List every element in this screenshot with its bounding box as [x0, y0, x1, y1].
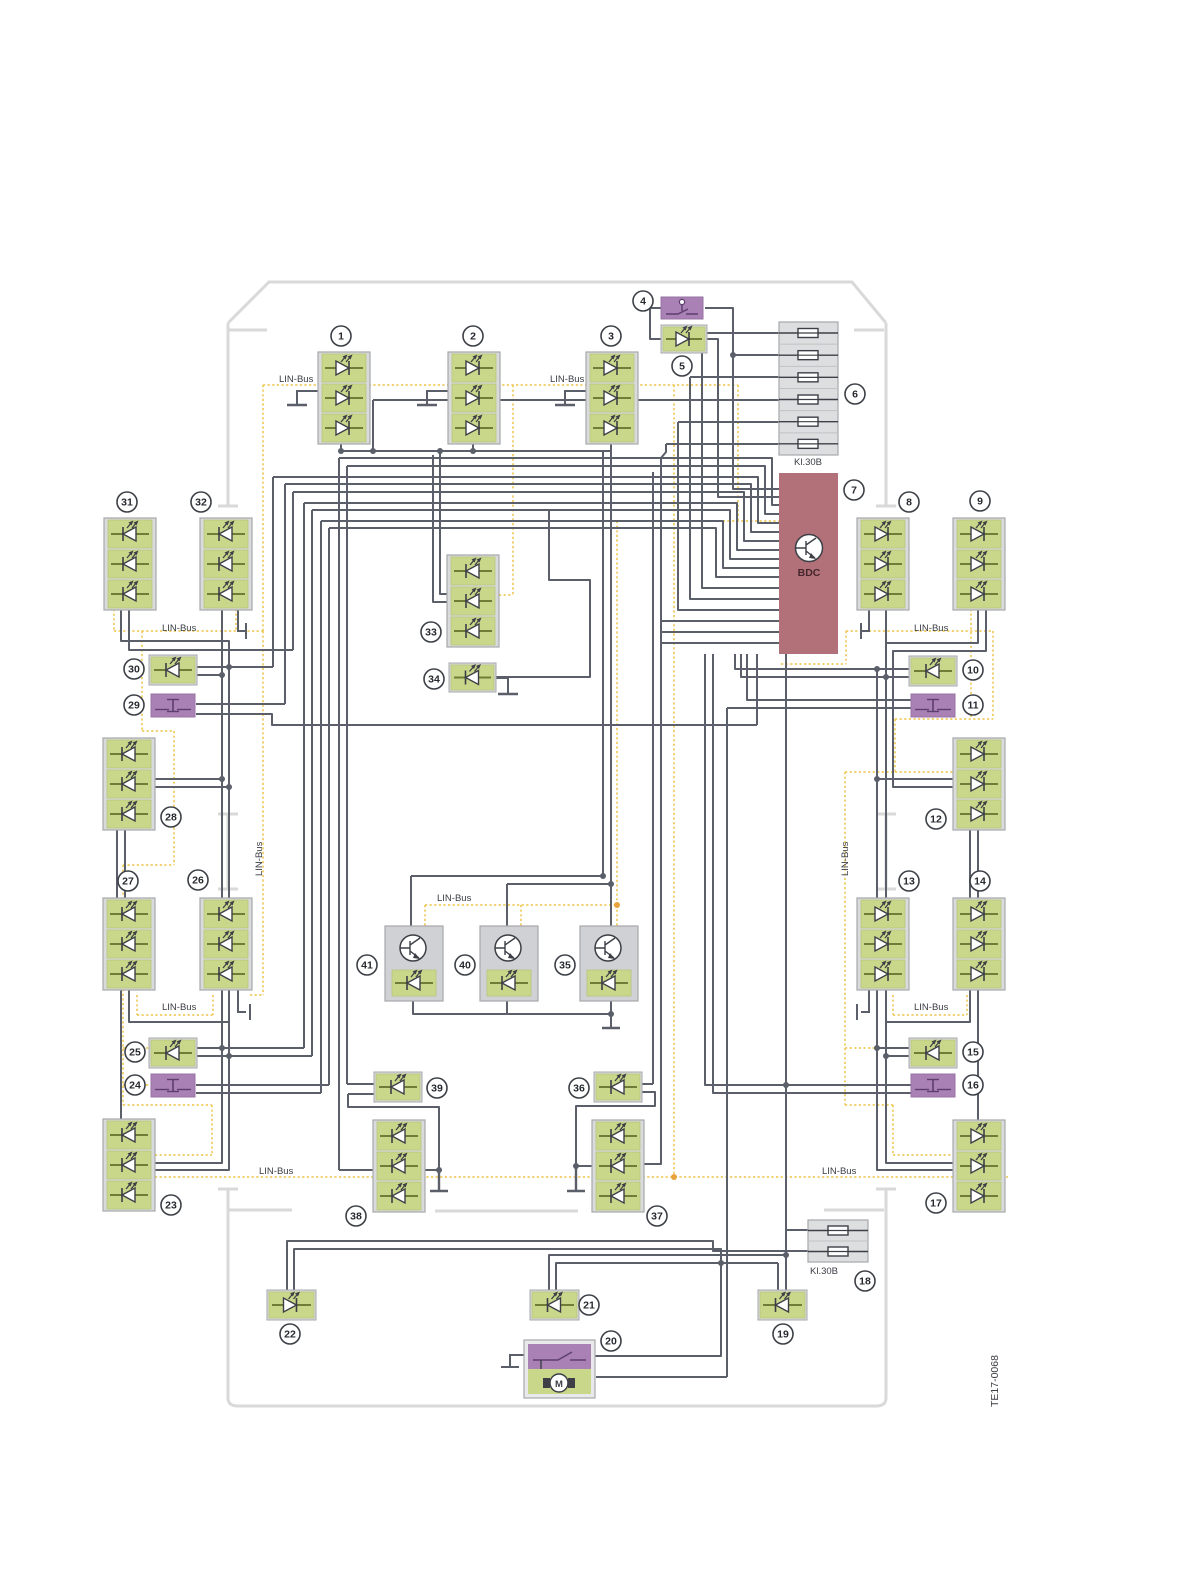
svg-text:27: 27 — [122, 876, 134, 888]
wire riser x757 from BDC bottom — [756, 654, 758, 725]
wire lamp31 to riser x229 — [121, 609, 229, 898]
wire fuse18 row1 stub — [786, 1229, 808, 1231]
lamp unit 8 (3 LEDs) — [857, 518, 909, 610]
label circle 5 — [672, 356, 692, 376]
svg-text:LIN-Bus: LIN-Bus — [822, 1166, 857, 1177]
wire lamp8 riser x886 — [885, 608, 887, 898]
wire switch24 line1 — [196, 1084, 329, 1086]
switch 4 (hazard) — [661, 297, 703, 319]
label circle 22 — [280, 1324, 300, 1344]
svg-text:8: 8 — [906, 497, 912, 509]
wire riser x304 — [303, 503, 305, 1048]
svg-text:7: 7 — [851, 485, 857, 497]
ground driver modules — [602, 1027, 620, 1029]
label circle 21 — [579, 1295, 599, 1315]
svg-text:14: 14 — [974, 876, 986, 888]
LIN-Bus stubs from units 31 32 — [114, 609, 236, 631]
svg-text:28: 28 — [165, 812, 177, 824]
wire lamp3 down — [610, 444, 612, 451]
svg-text:10: 10 — [967, 665, 979, 677]
wire bus line y528 to BDC pin y577 — [329, 528, 779, 577]
wire bus line y458 to BDC pin y505 — [339, 458, 779, 505]
label circle 29 — [124, 695, 144, 715]
lamp unit 14 (3 LEDs) — [953, 898, 1005, 990]
ground lamp unit 2 — [427, 391, 448, 405]
lamp 22 — [267, 1290, 316, 1320]
wire bus line y521 to BDC pin y568 — [321, 521, 779, 568]
wire into module 41 — [410, 876, 412, 926]
junction lamp28 b — [226, 784, 232, 790]
svg-text:9: 9 — [977, 496, 983, 508]
junction lamp1 — [338, 448, 344, 454]
fuse box 6 Kl.30B — [779, 322, 838, 455]
svg-text:LIN-Bus: LIN-Bus — [259, 1166, 294, 1177]
wire feed modules 40 35 vertical — [610, 451, 612, 884]
lamp 19 — [758, 1290, 807, 1320]
wire feed module 40 horizontal — [507, 883, 611, 885]
LIN-Bus junction dot bottom — [671, 1174, 677, 1180]
car outline right door divider — [876, 814, 896, 889]
wire lamp5 output to BDC — [705, 339, 779, 497]
wire fuse6 row4 long — [373, 399, 808, 401]
ground lamp unit 3 — [565, 391, 586, 405]
wire lamp9 out2 to lamp12 line2 — [893, 608, 986, 787]
ground lamp 34 — [494, 678, 508, 694]
lamp 36 — [594, 1072, 642, 1102]
LIN-Bus drop right of switch 4 — [737, 385, 739, 521]
ground lamp unit 26 — [238, 989, 250, 1020]
wire switch11 line2 — [727, 707, 911, 709]
label circle 13 — [899, 871, 919, 891]
wire switch24 line2 — [196, 1092, 321, 1094]
junction module40 feed — [608, 881, 614, 887]
label circle 19 — [773, 1324, 793, 1344]
car outline left door divider — [218, 814, 238, 889]
driver module 41 — [385, 926, 443, 1001]
label circle 2 — [463, 326, 483, 346]
wire to unit 38 left — [339, 1169, 374, 1171]
wire lamp27 to riser — [129, 989, 229, 1022]
LIN-Bus under boxes 27-26 — [137, 995, 213, 1015]
LIN-Bus left spine — [123, 631, 212, 1155]
wire riser x312 — [311, 510, 313, 1056]
ground lamp unit 13 — [857, 989, 869, 1020]
lamp unit 17 (3 LEDs) — [953, 1120, 1005, 1212]
svg-text:40: 40 — [459, 960, 471, 972]
svg-text:26: 26 — [192, 875, 204, 887]
svg-text:36: 36 — [573, 1083, 585, 1095]
lamp 39 — [374, 1072, 422, 1102]
junction lamp30 a — [226, 664, 232, 670]
label circle 10 — [963, 660, 983, 680]
wire lamp9 out1 — [886, 608, 978, 643]
svg-text:19: 19 — [777, 1329, 789, 1341]
wire BDC drop to switch11 line1 — [747, 654, 911, 700]
svg-text:LIN-Bus: LIN-Bus — [162, 623, 197, 634]
wire unit38 right — [423, 1169, 439, 1171]
wire feed module 41 vertical — [602, 451, 604, 876]
wire bus line y466 to BDC pin y514 — [347, 466, 779, 514]
wire lamp12 line1 — [877, 778, 953, 780]
wire lamp12 down to lamp14 b — [969, 830, 971, 898]
label circle 3 — [601, 326, 621, 346]
junction lamp10 b — [883, 674, 889, 680]
wire module35 down — [610, 1001, 612, 1027]
junction lamp15 a — [874, 1045, 880, 1051]
ground lamp unit 32 — [238, 609, 246, 639]
junction x786 switch16 — [783, 1082, 789, 1088]
car outline left front pillar — [218, 323, 267, 506]
lamp unit 23 (3 LEDs) — [103, 1119, 155, 1211]
wire to unit 39 in1 — [347, 1083, 376, 1085]
svg-text:18: 18 — [859, 1276, 871, 1288]
svg-text:17: 17 — [930, 1198, 942, 1210]
lamp 25 — [149, 1038, 197, 1068]
LIN-Bus right to unit 12 — [895, 609, 993, 772]
wire lamp36 out1 — [640, 1083, 653, 1085]
label circle 25 — [125, 1042, 145, 1062]
junction motor branch — [718, 1260, 724, 1266]
wire lamp28 down to lamp27 a — [116, 826, 118, 898]
svg-text:3: 3 — [608, 331, 614, 343]
label circle 26 — [188, 870, 208, 890]
wire switch29 line2 long run — [196, 714, 757, 725]
wire BDC pin y643 — [661, 642, 779, 644]
label circle 31 — [117, 492, 137, 512]
svg-text:22: 22 — [284, 1329, 296, 1341]
lamp 10 — [909, 656, 957, 686]
switch 24 — [151, 1074, 195, 1097]
svg-text:29: 29 — [128, 700, 140, 712]
svg-text:LIN-Bus: LIN-Bus — [254, 841, 265, 876]
svg-text:LIN-Bus: LIN-Bus — [840, 841, 851, 876]
svg-text:35: 35 — [559, 960, 571, 972]
junction lamp15 b — [883, 1053, 889, 1059]
label circle 16 — [963, 1075, 983, 1095]
junction lamp28 a — [219, 776, 225, 782]
motor unit 20 (pump with switch) — [524, 1340, 595, 1398]
junction modules ground — [608, 1011, 614, 1017]
wire fuse row6 long drop to unit37 — [641, 444, 666, 1164]
LIN-Bus to BDC bottom — [781, 631, 846, 664]
wire lamp1 down — [340, 444, 342, 451]
svg-text:31: 31 — [121, 497, 133, 509]
LIN-Bus right spine — [845, 772, 953, 1155]
lamp unit 26 (3 LEDs) — [200, 898, 252, 990]
junction riser 25b — [226, 1053, 232, 1059]
junction lamp30 b — [219, 672, 225, 678]
label circle 24 — [125, 1075, 145, 1095]
svg-text:6: 6 — [852, 389, 858, 401]
svg-text:LIN-Bus: LIN-Bus — [437, 893, 472, 904]
wire motor20 upper — [595, 1263, 721, 1356]
label circle 18 — [855, 1271, 875, 1291]
LIN-Bus stubs to 30 29 — [151, 663, 174, 705]
svg-text:12: 12 — [930, 814, 942, 826]
svg-text:15: 15 — [967, 1047, 979, 1059]
label circle 41 — [357, 955, 377, 975]
ground lamp unit 1 — [297, 391, 318, 405]
fuse box 18 Kl.30B — [808, 1220, 868, 1262]
svg-text:TE17-0068: TE17-0068 — [989, 1355, 1001, 1407]
lamp unit 37 (3 LEDs) — [592, 1120, 644, 1212]
wire into module 40 — [506, 884, 508, 926]
svg-text:M: M — [555, 1379, 563, 1390]
wire fuse6 row5 — [678, 421, 808, 423]
wire modules common ground rail — [413, 1001, 611, 1014]
junction unit38 — [436, 1167, 442, 1173]
wire to unit37 left — [576, 1165, 592, 1167]
switch 11 — [911, 694, 955, 717]
svg-text:11: 11 — [967, 700, 978, 712]
lamp 34 — [449, 663, 496, 692]
wire lamp36 out2 loop — [576, 1092, 655, 1166]
wire lamp39 in2 — [348, 1093, 376, 1095]
ground motor 20 — [501, 1355, 524, 1367]
label circle 6 — [845, 384, 865, 404]
wire lamp14 to riser — [886, 989, 970, 1022]
svg-text:LIN-Bus: LIN-Bus — [162, 1002, 197, 1013]
wire to lamp19 in1 — [777, 1263, 779, 1292]
label circle 12 — [926, 809, 946, 829]
wire lamp22 rail2 — [294, 1249, 721, 1292]
label circle 8 — [899, 492, 919, 512]
label circle 33 — [421, 622, 441, 642]
ground unit 37 — [567, 1166, 585, 1191]
wire riser x273 — [272, 477, 274, 667]
wire lamp common rail y451 — [341, 450, 611, 452]
svg-text:32: 32 — [195, 497, 207, 509]
wire switch4 to lamp5 link — [650, 308, 663, 339]
wire lamp21 up1 — [549, 1255, 786, 1292]
label circle 35 — [555, 955, 575, 975]
junction module41 feed — [600, 873, 606, 879]
label circle 32 — [191, 492, 211, 512]
wire fuse row5 drop to BDC pin — [678, 422, 779, 610]
wire module40 down — [506, 1001, 508, 1014]
svg-text:39: 39 — [431, 1083, 443, 1095]
switch 16 — [911, 1074, 955, 1097]
svg-text:23: 23 — [165, 1200, 177, 1212]
LIN-Bus branch to unit 33 — [499, 385, 513, 595]
wire lamp28 line2 — [155, 786, 229, 788]
junction unit33 feed — [437, 448, 443, 454]
wire riser to lamp23 line1 — [155, 989, 222, 1163]
wire lamp15 line2 — [886, 1055, 911, 1057]
wire lamp30 line1 — [196, 666, 229, 668]
wire bus line y492 to BDC pin y541 — [293, 492, 779, 541]
lamp unit 3 (3 LEDs) — [586, 352, 638, 444]
wire BDC drop to lamp10 line2 — [741, 654, 886, 677]
wire lamp32 riser x222 — [221, 609, 223, 898]
junction x786 lamp21 — [783, 1252, 789, 1258]
wire fuse6 row6 — [666, 443, 808, 445]
wire bus line y510 to BDC pin y559 — [312, 510, 779, 559]
junction riser 25a — [219, 1045, 225, 1051]
wire riser to lamp23 line2 — [155, 989, 229, 1170]
wire lamp31 second to riser — [129, 609, 293, 650]
wire riser x293 — [292, 492, 294, 650]
wire riser x347 — [346, 466, 348, 1084]
label circle 30 — [124, 659, 144, 679]
LIN-Bus drop right of box 32 to box 26 — [250, 631, 263, 995]
wire riser x339 — [338, 458, 340, 1170]
switch 29 — [151, 694, 195, 717]
wire lamp30 line1 ext — [229, 666, 273, 668]
wire bus line y503 to BDC pin y550 — [304, 503, 779, 550]
wire lamp21 up2 — [556, 1263, 778, 1292]
wire riser to fuse row4 — [372, 400, 374, 451]
LIN-Bus under boxes 31-32 — [114, 630, 263, 632]
wire BDC pin y632 — [661, 631, 779, 633]
LIN-Bus into BDC left — [617, 520, 779, 522]
label circle 15 — [963, 1042, 983, 1062]
svg-text:LIN-Bus: LIN-Bus — [914, 1002, 949, 1013]
wire long vertical x727 to motor — [726, 708, 728, 1377]
label circle 14 — [970, 871, 990, 891]
LIN-Bus stubs to 25 24 — [123, 1048, 151, 1085]
junction unit37 — [573, 1163, 579, 1169]
label circle 4 — [633, 291, 653, 311]
wire feed unit33 line1 — [440, 451, 447, 594]
wire into module 35 — [610, 884, 612, 926]
ground lamp unit 8 — [861, 609, 869, 639]
svg-text:13: 13 — [903, 876, 915, 888]
LIN-Bus drop left of box 1 — [262, 385, 264, 631]
svg-text:5: 5 — [679, 361, 685, 373]
ground unit 38 — [430, 1170, 448, 1191]
wire lamp2 down — [472, 444, 474, 451]
junction lamp10 a — [874, 666, 880, 672]
label circle 40 — [455, 955, 475, 975]
svg-text:20: 20 — [605, 1336, 617, 1348]
wire motor20 lower — [596, 1376, 727, 1378]
svg-text:LIN-Bus: LIN-Bus — [550, 374, 585, 385]
wire lamp14 down to lamp17 top — [977, 989, 979, 1120]
driver module 35 — [580, 926, 638, 1001]
label circle 9 — [970, 491, 990, 511]
svg-text:LIN-Bus: LIN-Bus — [279, 374, 314, 385]
wire lamp30 line2 — [196, 674, 222, 676]
svg-text:Kl.30B: Kl.30B — [794, 457, 822, 468]
label circle 23 — [161, 1195, 181, 1215]
LIN-Bus drops into modules 41 40 35 — [425, 905, 617, 926]
junction fuse row2 — [730, 352, 736, 358]
LIN-Bus stub to 15 — [845, 1047, 911, 1049]
wire lamp39 loop to unit38 — [348, 1094, 439, 1170]
lamp unit 9 (3 LEDs) — [953, 518, 1005, 610]
label circle 27 — [118, 871, 138, 891]
wire lamp10 line2 in — [886, 676, 911, 678]
svg-text:38: 38 — [350, 1211, 362, 1223]
wire riser x285 — [284, 484, 286, 704]
wire riser x653 — [652, 472, 654, 1084]
wire switch16 line1 from BDC — [705, 654, 911, 1085]
lamp unit 28 (3 LEDs) — [103, 738, 155, 830]
LIN-Bus center-right vertical — [673, 385, 675, 1177]
lamp unit 31 (3 LEDs) — [104, 518, 156, 610]
label circle 38 — [346, 1206, 366, 1226]
LIN-Bus top segment boxes 1-3 — [263, 384, 738, 386]
wire lamp28 line1 — [155, 778, 222, 780]
wire fuse6 row3 — [690, 376, 808, 378]
wire riser x329 — [328, 528, 330, 1085]
svg-text:37: 37 — [651, 1211, 663, 1223]
wire lamp15 line1 — [877, 1047, 911, 1049]
wire lamp28 down to lamp27 b — [124, 826, 126, 898]
wire lamp12 down to lamp14 a — [977, 830, 979, 898]
label circle 34 — [424, 669, 444, 689]
wire lamp22 rail1 to fuse18 row2 — [287, 1241, 808, 1292]
svg-text:30: 30 — [128, 664, 140, 676]
label circle 28 — [161, 807, 181, 827]
driver module 40 — [480, 926, 538, 1001]
LIN-Bus under boxes 8-9 — [846, 630, 993, 632]
car outline rear deck lines — [229, 1210, 884, 1211]
label circle 17 — [926, 1193, 946, 1213]
lamp unit 2 (3 LEDs) — [448, 352, 500, 444]
svg-text:4: 4 — [640, 296, 646, 308]
wire fuse row3 drop to BDC pin — [690, 377, 779, 599]
wire lamp27 down to lamp23 top — [120, 989, 122, 1119]
wire riser x877 to lamp17 line2 — [877, 989, 953, 1170]
wire riser x886 to lamp17 line1 — [886, 989, 953, 1163]
wire fuse6 row1 — [702, 332, 808, 334]
svg-text:BDC: BDC — [798, 567, 821, 579]
lamp unit 1 (3 LEDs) — [318, 352, 370, 444]
lamp 5 — [661, 325, 707, 353]
label circle 37 — [647, 1206, 667, 1226]
lamp 30 — [149, 655, 197, 685]
svg-text:21: 21 — [583, 1300, 595, 1312]
wire bus line y484 to BDC pin y532 — [285, 484, 779, 532]
lamp unit 12 (3 LEDs) — [953, 738, 1005, 830]
wire switch4 output — [705, 308, 733, 355]
BDC body domain controller 7 — [779, 473, 838, 654]
svg-text:1: 1 — [338, 331, 344, 343]
wire switch16 line2 from BDC — [713, 654, 911, 1093]
label circle 7 — [844, 480, 864, 500]
label circle 39 — [427, 1078, 447, 1098]
lamp 15 — [909, 1038, 957, 1068]
lamp unit 33 (3 LEDs) — [447, 555, 499, 647]
svg-text:34: 34 — [428, 674, 440, 686]
wire bus line y477 to BDC pin y523 — [273, 477, 779, 523]
wire lamp10 line1 in — [877, 668, 911, 670]
label circle 36 — [569, 1078, 589, 1098]
svg-text:24: 24 — [129, 1080, 141, 1092]
wire fuse row1 drop to BDC pin — [702, 333, 779, 588]
wire feed unit33 line2 — [433, 455, 447, 602]
LIN-Bus bottom long run — [155, 1176, 1008, 1178]
svg-text:LIN-Bus: LIN-Bus — [914, 623, 949, 634]
junction lamp12 a — [874, 776, 880, 782]
lamp unit 27 (3 LEDs) — [103, 898, 155, 990]
svg-text:2: 2 — [470, 331, 476, 343]
svg-text:41: 41 — [361, 960, 373, 972]
svg-text:16: 16 — [967, 1080, 979, 1092]
wire switch29 line1 — [196, 703, 285, 705]
lamp unit 32 (3 LEDs) — [200, 518, 252, 610]
LIN-Bus to driver modules — [425, 904, 617, 906]
lamp unit 38 (3 LEDs) — [373, 1120, 425, 1212]
LIN-Bus junction dot center — [614, 902, 620, 908]
wire lamp25 line1 — [196, 1047, 304, 1049]
svg-text:33: 33 — [425, 627, 437, 639]
svg-text:Kl.30B: Kl.30B — [810, 1266, 838, 1277]
car outline rear section — [218, 1189, 896, 1406]
junction lamp2 — [470, 448, 476, 454]
